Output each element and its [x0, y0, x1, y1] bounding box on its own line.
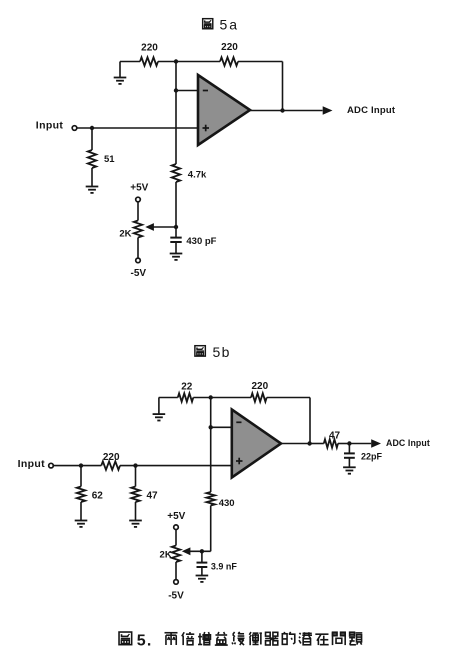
node feedback junction 5a	[280, 108, 284, 112]
wire input line 5b	[54, 465, 102, 467]
node wiper junction 5a	[174, 225, 178, 229]
svg-text:b: b	[222, 344, 230, 360]
wire feedback drop 5b	[309, 398, 311, 444]
svg-text:220: 220	[221, 42, 238, 53]
pin plus U2	[236, 460, 243, 462]
node output cap junction	[347, 441, 351, 445]
svg-text:.: .	[147, 632, 151, 649]
svg-text:-5V: -5V	[168, 590, 184, 601]
svg-text:51: 51	[104, 154, 115, 165]
pot wiper arrow 5b	[182, 547, 191, 555]
svg-text:ADC Input: ADC Input	[347, 105, 396, 116]
svg-text:4.7k: 4.7k	[188, 170, 207, 181]
wire output 5a	[250, 110, 323, 112]
op-amp U2	[232, 410, 281, 478]
ground G5	[75, 521, 88, 527]
svg-text:5: 5	[137, 632, 146, 649]
node input junction 5a	[90, 126, 94, 130]
arrow ADC 5a	[323, 106, 333, 115]
resistor R1 220	[140, 57, 158, 65]
pin plus U1	[203, 127, 210, 129]
wire top rail 5a	[120, 61, 140, 63]
capacitor C3 3.9 nF	[201, 551, 203, 562]
resistor R3 51	[88, 150, 96, 168]
wire inverting vertical 5a	[175, 62, 177, 165]
svg-text:-5V: -5V	[131, 268, 147, 279]
resistor R7 62	[77, 487, 85, 503]
wire R3 bottom lead	[91, 168, 93, 186]
ground G2	[86, 187, 99, 193]
ground G6	[129, 521, 142, 527]
resistor R6 220	[251, 393, 267, 401]
svg-text:a: a	[229, 17, 237, 33]
wire feedback drop 5a	[282, 62, 284, 111]
wire R7 top lead	[80, 466, 82, 487]
resistor R5 22	[178, 393, 194, 401]
resistor R8 220	[101, 461, 120, 469]
node feedback junction 5b	[307, 441, 311, 445]
resistor R11 47	[324, 439, 338, 447]
terminal input 5b	[49, 463, 54, 468]
node inverting rail junction 5b	[209, 395, 213, 399]
wire R9 bottom lead	[135, 502, 137, 520]
svg-text:430: 430	[219, 498, 235, 509]
node input junction R7	[79, 463, 83, 467]
svg-text:ADC Input: ADC Input	[386, 438, 430, 448]
svg-text:2K: 2K	[119, 229, 131, 240]
svg-text:47: 47	[147, 490, 159, 501]
svg-text:+5V: +5V	[130, 183, 148, 194]
ground G8	[196, 576, 209, 582]
svg-text:5: 5	[213, 344, 221, 360]
svg-text:220: 220	[141, 43, 158, 54]
svg-text:220: 220	[251, 381, 268, 392]
wire pot bottom lead 5a	[137, 238, 139, 259]
terminal pot top 5a	[136, 197, 141, 202]
svg-text:62: 62	[92, 490, 104, 501]
ground G4	[158, 398, 160, 414]
resistor R2 220	[220, 57, 238, 65]
op-amp U1	[198, 75, 250, 145]
resistor R9 47	[131, 487, 139, 503]
node inverting input junction 5b	[209, 425, 213, 429]
svg-text:22: 22	[181, 382, 193, 393]
terminal pot bottom 5b	[174, 580, 179, 585]
node input junction R9	[133, 463, 137, 467]
wire pot top lead 5b	[175, 530, 177, 546]
wire pot top lead 5a	[137, 202, 139, 221]
wire R10 bottom lead	[210, 506, 212, 552]
ground G7	[343, 467, 356, 473]
svg-text:3.9 nF: 3.9 nF	[211, 562, 238, 572]
wire R3 top lead	[91, 128, 93, 150]
wire pot bottom lead 5b	[175, 562, 177, 580]
wire R4 bottom lead	[175, 182, 177, 227]
capacitor C1 430 pF	[175, 227, 177, 238]
pin minus U1	[203, 90, 208, 92]
svg-text:Input: Input	[18, 458, 46, 470]
wire top rail 5b	[159, 397, 178, 399]
terminal pot bottom 5a	[136, 258, 141, 263]
node wiper junction 5b	[200, 549, 204, 553]
svg-text:5: 5	[220, 17, 228, 33]
wire inverting stub 5a	[176, 90, 198, 92]
potentiometer P1 2K	[134, 221, 142, 238]
capacitor C2 22pF	[348, 444, 350, 454]
ground G3	[170, 254, 183, 260]
terminal pot top 5b	[174, 525, 179, 530]
node inverting input junction	[174, 88, 178, 92]
title figure 5a	[203, 19, 213, 29]
wire output 5b	[281, 443, 310, 445]
pin minus U2	[236, 421, 241, 423]
wire C3 ground lead	[201, 567, 203, 575]
wire inverting stub 5b	[211, 426, 232, 428]
resistor R4 4.7k	[172, 164, 180, 182]
title figure 5b	[195, 346, 205, 356]
svg-text:2K: 2K	[160, 550, 172, 561]
arrow ADC 5b	[371, 439, 381, 448]
node inverting rail junction	[174, 59, 178, 63]
wire input line 5a	[77, 127, 198, 129]
wire C2 ground lead	[348, 458, 350, 467]
svg-text:+5V: +5V	[167, 511, 185, 522]
svg-text:22pF: 22pF	[361, 451, 383, 461]
resistor R10 430	[207, 492, 215, 506]
ground G1	[119, 62, 121, 78]
terminal input 5a	[72, 126, 77, 131]
wire inverting vertical 5b	[210, 398, 212, 493]
svg-text:430 pF: 430 pF	[186, 236, 216, 247]
caption figure 5	[119, 632, 132, 645]
potentiometer P2 2K	[172, 546, 180, 563]
wire R9 top lead	[135, 466, 137, 487]
wire R7 bottom lead	[80, 502, 82, 520]
svg-text:Input: Input	[36, 119, 64, 131]
wire C1 ground lead	[175, 242, 177, 253]
pot wiper arrow 5a	[145, 223, 154, 231]
svg-text:220: 220	[103, 452, 120, 463]
svg-text:47: 47	[329, 430, 341, 441]
